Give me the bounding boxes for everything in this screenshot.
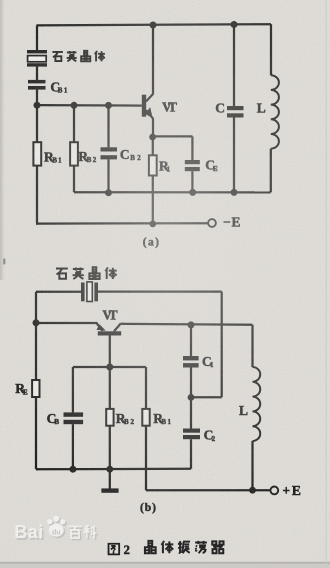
capacitor C (227, 106, 244, 118)
wire emitter lead (b) (36, 323, 103, 331)
label (a) (143, 236, 159, 248)
wire L bottom lead (a) (269, 149, 271, 193)
inductor L (b) (253, 367, 261, 441)
wire emitter node to CE branch (153, 136, 193, 160)
label VT (b) (102, 307, 117, 322)
wire base bus (a) (37, 104, 142, 107)
label RB2 (b) (116, 411, 135, 426)
wire RE bottom lead (b) (36, 397, 38, 469)
wire bias bus (b) (73, 366, 146, 368)
capacitor CE (185, 160, 200, 171)
caption 图 2 晶体振荡器 (109, 541, 224, 557)
wire RB2 top lead (73, 105, 75, 142)
node base bus / crystal junction (34, 102, 41, 109)
label RE (b) (15, 381, 28, 396)
label CE (a) (205, 158, 218, 173)
label CB2 (a) (120, 147, 141, 162)
wire R1 top lead (152, 137, 154, 155)
wire RB1 bottom lead to -E rail (36, 166, 38, 224)
resistor RB1 (b) (142, 409, 149, 426)
node emitter (a) (149, 134, 156, 141)
wire emitter lead down (a) (152, 119, 154, 138)
node C branch / top bus (231, 21, 238, 28)
wire base lead down (b) (109, 335, 111, 367)
Baidu baike watermark (14, 516, 98, 544)
resistor RB2 (b) (106, 409, 113, 426)
label 石英晶体 (b) (56, 267, 117, 279)
wire crystal to CB1 (a) (36, 67, 38, 80)
wire L top lead (b) (251, 325, 253, 367)
node base bus / CB2 junction (105, 102, 112, 109)
node C / mid bus junction (231, 189, 238, 196)
node CB2 / mid bus junction (105, 189, 112, 196)
wire CB1 to base bus (a) (36, 90, 38, 106)
terminal +E (270, 487, 278, 495)
capacitor CB (64, 412, 84, 424)
wire C1 top lead (b) (190, 325, 192, 356)
wire C1 bottom lead (b) (190, 368, 192, 398)
resistor R1 (149, 155, 157, 175)
crystal Y2 石英晶体 (b) (81, 282, 98, 302)
node C1-C2 / feedback junction (188, 394, 195, 401)
wire RB2 top lead (b) (109, 367, 111, 409)
wire CB top lead (b) (72, 367, 74, 412)
label RB1 (a) (44, 149, 62, 164)
wire RB2 bottom lead (b) (109, 426, 111, 470)
label VT (a) (162, 99, 177, 114)
label CB (b) (47, 411, 60, 426)
wire ground bus (b) (36, 468, 191, 471)
wire RB2 bottom lead (73, 166, 75, 193)
label (b) (140, 502, 156, 514)
wire C branch top lead (a) (233, 24, 235, 106)
node emitter wire / left column (b) (33, 319, 40, 326)
wire RB1 top lead (36, 105, 38, 142)
resistor RB1 (33, 142, 41, 165)
transistor VT (a) (142, 94, 153, 119)
node base bus / RB2 junction (71, 102, 78, 109)
node L / +E rail (249, 487, 256, 494)
wire CB bottom lead (b) (72, 424, 74, 469)
wire -E rail (36, 222, 208, 225)
node C1 / collector wire (b) (188, 321, 195, 328)
wire +E rail (146, 489, 270, 491)
node CB / ground bus (b) (69, 466, 76, 473)
wire left column top (b) (35, 292, 37, 323)
label CB1 (50, 80, 68, 95)
node collector / top bus (150, 22, 157, 29)
wire CB2 bottom lead (107, 159, 109, 192)
wire C2 top lead (b) (190, 397, 192, 428)
label C (a) (215, 101, 225, 116)
inductor L (a) (271, 75, 279, 149)
label +E terminal (282, 483, 301, 498)
label C2 (b) (204, 427, 216, 442)
wire CB2 top lead (107, 105, 109, 147)
label 石英晶体 (a) (52, 51, 104, 61)
label RB1 (b) (153, 411, 171, 426)
label -E terminal (223, 215, 241, 230)
wire crystal top lead (a) (36, 25, 38, 50)
wire R1 bottom lead crossing mid bus to -E rail (152, 176, 154, 225)
node R1 / -E rail junction (149, 221, 156, 228)
wire mid bus (a) (74, 191, 271, 193)
transistor VT (b) (96, 324, 121, 336)
scan speck (3, 259, 5, 265)
label RB2 (a) (78, 149, 97, 164)
label L (a) (257, 101, 266, 116)
wire collector lead up (a) (152, 25, 154, 95)
crystal Y1 石英晶体 (a) (27, 50, 47, 67)
wire C2 bottom lead to ground bus corner (b) (190, 439, 192, 469)
capacitor CB1 (28, 80, 46, 90)
wire crystal right lead to feedback corner (b) (98, 292, 222, 398)
wire collector lead (b) (120, 324, 252, 325)
label C1 (b) (202, 354, 214, 369)
wire crystal left lead (b) (36, 291, 81, 293)
node RB2 / ground bus (b) (106, 466, 113, 473)
node base / bias bus (b) (106, 364, 113, 371)
capacitor C1 (183, 356, 199, 368)
wire C bottom lead (233, 118, 235, 193)
capacitor CB2 (101, 147, 118, 159)
label R1 (a) (159, 158, 171, 173)
wire L bottom lead (b) (251, 441, 253, 490)
wire L branch top lead (a) (270, 24, 272, 75)
wire RE top / left column (b) (35, 323, 37, 380)
ground (101, 488, 118, 492)
resistor RB2 (70, 142, 78, 165)
node CE / mid bus junction (189, 189, 196, 196)
wire CE bottom lead (191, 171, 193, 192)
wire top bus circuit (a) (37, 24, 272, 25)
capacitor C2 (183, 429, 200, 440)
wire feedback horizontal into C1-C2 node (191, 396, 222, 398)
terminal -E (208, 219, 216, 227)
wire ground stub (109, 469, 111, 488)
wire RB1 bottom lead crossing ground bus to +E rail (146, 426, 148, 491)
label L (b) (239, 403, 248, 418)
resistor RE (32, 380, 39, 397)
wire RB1 top lead (b) (145, 367, 147, 409)
